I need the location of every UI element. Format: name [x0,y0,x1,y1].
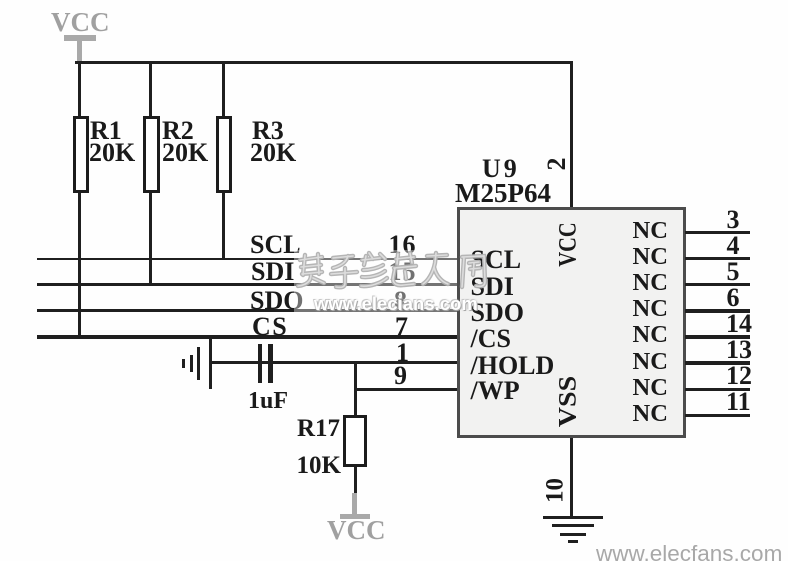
node SDI label [251,259,294,285]
pin label VSS (rotated) [556,363,581,439]
pin label /CS [471,326,511,352]
resistor R3 [216,116,233,193]
pin number 9 [394,363,407,389]
pin 5 wire [685,283,750,286]
capacitor 1uF [258,344,262,383]
pin number 5 [727,259,740,285]
wire net WP [354,388,457,391]
wire rail to R2 [149,63,152,116]
pin number 6 [727,285,740,311]
pin label /HOLD [471,353,555,379]
watermark bottom-right [596,541,782,561]
pin number 11 [726,389,751,415]
pin 4 wire [685,257,750,260]
wire VCC rail [75,61,573,64]
wire R3 to SCL net [222,193,225,260]
wire R1 to CS net [78,193,81,338]
node SDO label [250,288,303,314]
resistor R2 [143,116,160,193]
pin 3 wire [685,231,750,234]
pin number 7 [395,314,408,340]
wire net SDO [37,309,457,312]
wire net SCL [37,258,457,261]
wire VSS pin 10 [570,438,573,516]
pin label SCL [471,247,522,273]
resistor R1 [73,116,90,193]
pin number 3 [727,207,740,233]
pin number 12 [726,363,752,389]
pin label /WP [471,378,520,404]
wire rail to R1 [78,63,81,116]
pin number 15 [389,259,417,285]
pin labels NC x8 [633,219,668,244]
wire R17 to VCC [354,467,357,494]
pin 6 wire [685,309,750,312]
pin number 8 [394,288,407,314]
pin label VCC (rotated) [556,216,581,273]
pin 14 wire [685,335,750,338]
wire net SDI [37,283,457,287]
pin number 13 [726,337,752,363]
wire net HOLD [210,361,457,364]
watermark center [294,250,457,312]
pin label SDI [471,274,514,300]
pin 13 wire [685,361,750,364]
wire HOLD junction to R17 [354,362,357,415]
pin 11 wire [685,414,750,417]
power symbol VCC (top-left) [51,9,110,36]
node SCL label [250,232,301,258]
resistor R17 [343,415,367,467]
pin number 16 [389,232,417,258]
pin 2 number (rotated) [544,151,570,177]
ground (bottom, earth) [543,516,603,520]
power symbol VCC (bottom) [352,493,357,515]
pin label SDO [471,300,524,326]
pin number 4 [727,233,740,259]
IC U9 M25P64 [457,207,686,438]
ground (sideways, on HOLD net) [209,337,213,389]
pin number 1 [396,340,409,366]
watermark url center [314,293,478,315]
wire net CS [37,335,457,339]
wire rail to U9 VCC pin 2 [570,63,573,207]
pin 12 wire [685,388,750,391]
wire rail to R3 [222,63,225,116]
wire R2 to SDI net [149,193,152,286]
node CS label [252,314,288,340]
pin 10 number (rotated) [543,474,568,508]
pin number 14 [726,311,752,337]
